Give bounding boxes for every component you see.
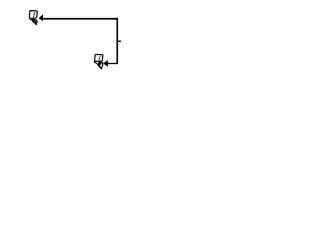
arrowhead into D1	[39, 14, 44, 21]
arrowhead into D2	[103, 60, 108, 67]
wire bottom horizontal segment	[108, 63, 118, 65]
wire top horizontal segment	[43, 18, 118, 20]
device icon D1 (top-left pushpin clip-art)	[29, 11, 37, 25]
device icon D2 (bottom pushpin clip-art)	[95, 54, 103, 68]
wire right vertical segment	[116, 18, 118, 64]
junction tick on vertical wire	[117, 40, 121, 42]
